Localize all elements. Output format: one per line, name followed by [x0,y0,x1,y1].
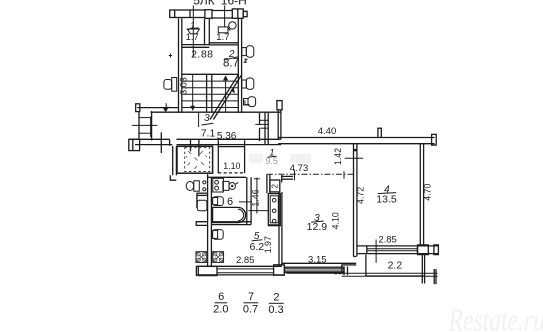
svg-text:6.2: 6.2 [249,241,264,253]
svg-text:4.40: 4.40 [318,126,337,137]
svg-text:13.5: 13.5 [376,193,397,205]
svg-text:Restate.ru: Restate.ru [448,303,543,332]
svg-text:7.1: 7.1 [201,128,216,140]
svg-text:1.42: 1.42 [333,148,343,165]
svg-text:2.85: 2.85 [236,255,255,266]
svg-text:2: 2 [270,183,279,188]
svg-text:2.85: 2.85 [378,235,397,246]
svg-text:0.7: 0.7 [243,303,258,315]
svg-text:2.88: 2.88 [191,49,213,61]
svg-text:1.97: 1.97 [263,236,273,253]
svg-text:6: 6 [218,291,224,303]
svg-text:4.72: 4.72 [356,187,366,204]
svg-text:5.36: 5.36 [217,131,237,142]
svg-text:1.10: 1.10 [223,161,240,171]
svg-text:8.7: 8.7 [223,57,239,69]
svg-text:9.5: 9.5 [265,156,278,166]
svg-text:1: 1 [190,21,195,32]
svg-text:5ЛК: 5ЛК [193,0,215,7]
svg-text:6: 6 [227,196,233,208]
svg-text:12.9: 12.9 [307,221,328,233]
svg-text:7: 7 [248,291,254,303]
svg-text:3.03: 3.03 [178,77,188,95]
svg-text:2.0: 2.0 [213,303,228,315]
svg-text:1.7: 1.7 [216,32,229,43]
svg-text:2.2: 2.2 [388,260,403,272]
svg-text:4.73: 4.73 [290,163,309,174]
svg-text:1.46: 1.46 [251,189,261,206]
svg-text:4.10: 4.10 [331,212,341,229]
svg-text:1.7: 1.7 [186,32,199,43]
svg-text:2: 2 [273,292,279,304]
svg-text:0.3: 0.3 [268,304,283,316]
svg-text:3: 3 [204,113,210,124]
